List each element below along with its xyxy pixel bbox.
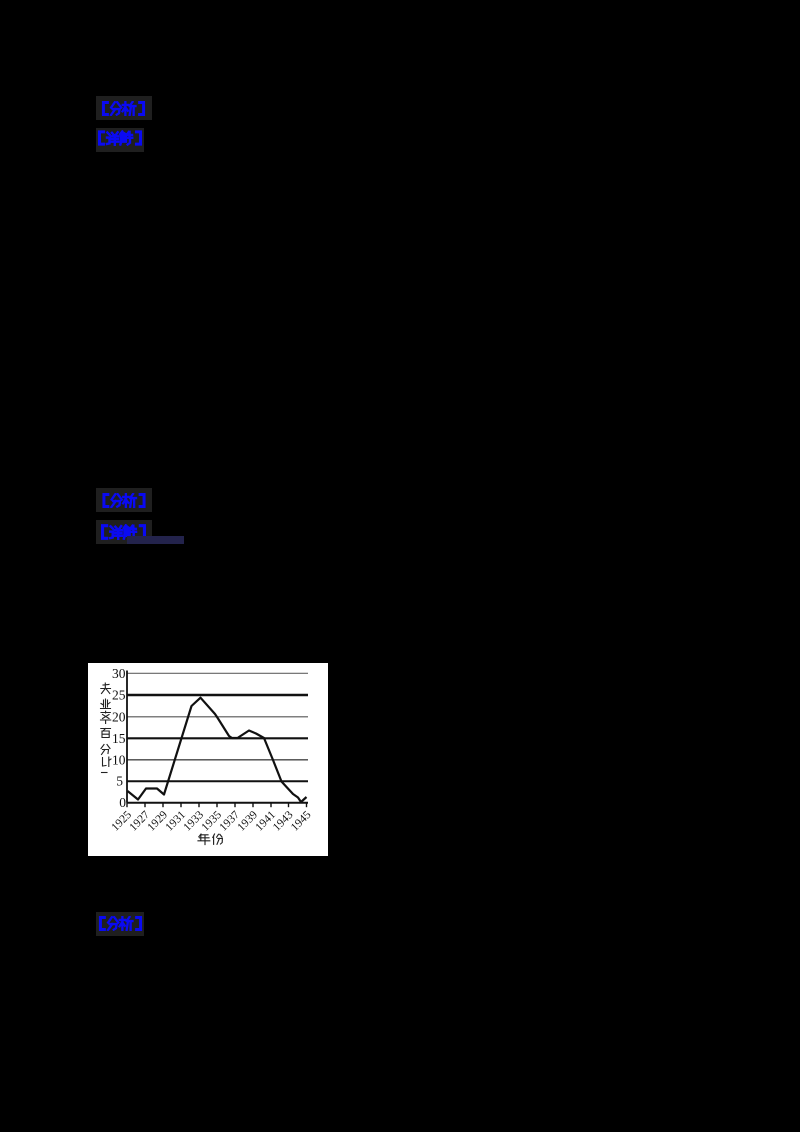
blue label 1: [analysis] [100,101,147,116]
highlight box 1 [96,96,152,120]
thick gridline 5 [127,780,308,782]
FEN [101,745,110,755]
x axis [127,802,308,804]
y axis [126,671,128,803]
highlight box 3 [96,488,152,512]
highlight box 4 [96,520,152,544]
blue label 3: [analysis] [100,493,148,508]
x axis caption: year (CJK) [198,834,222,845]
svg-text:20: 20 [112,709,126,724]
glyph defs [0,0,2,2]
BAI [101,729,111,738]
thin gridline 20 [127,716,308,718]
blue label 5: [analysis] [98,916,143,931]
small dash [102,772,108,774]
thick gridline 15 [127,737,308,739]
LV [101,711,111,723]
svg-text:25: 25 [112,688,126,703]
BI [103,757,112,767]
svg-text:0: 0 [119,795,126,810]
highlight box 2 [96,128,144,152]
data curve [128,698,307,802]
FEN [213,834,223,844]
chart image: US unemployment rate 1925-1945 [88,663,328,856]
svg-text:15: 15 [112,731,126,746]
thin gridline 30 [127,672,308,674]
chart white background [88,663,328,856]
y axis caption: unemployment-rate percent (vertical CJK) [101,683,112,773]
thin gridline 10 [127,759,308,761]
svg-text:10: 10 [112,752,126,767]
x ticks [127,803,307,808]
SHI [101,683,111,694]
highlight box 5 [96,912,144,936]
blue label 4: [detailed] [100,524,147,540]
navy underline bar [127,536,184,544]
rotated year labels [109,809,313,834]
thick gridline 25 [127,694,308,696]
svg-text:30: 30 [112,666,126,681]
blue label 2: [detailed] [97,130,143,146]
YE [101,699,111,709]
svg-text:5: 5 [116,774,123,789]
y axis numeric labels [112,666,126,810]
NIAN [198,834,210,845]
